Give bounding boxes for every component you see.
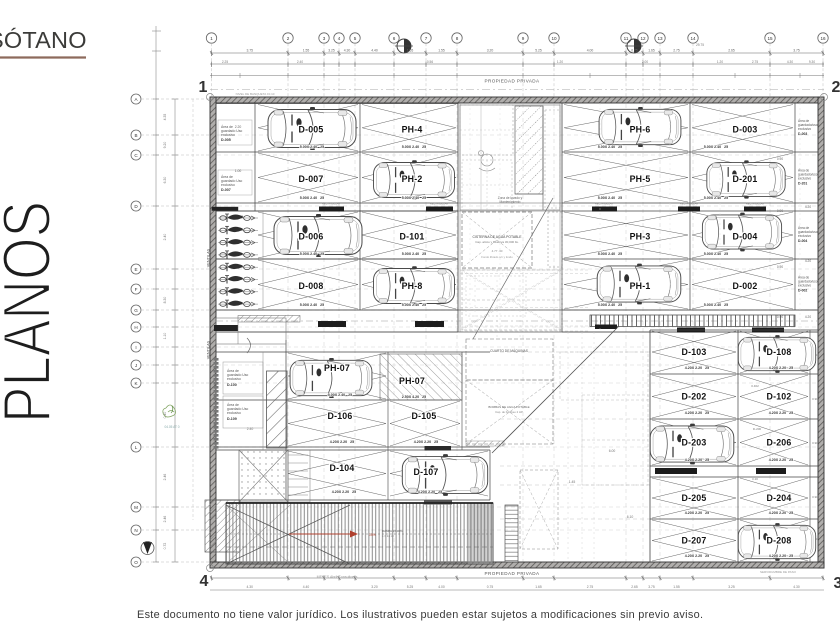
svg-text:0.90: 0.90 bbox=[812, 495, 818, 499]
svg-text:D-004: D-004 bbox=[733, 232, 758, 242]
svg-text:E: E bbox=[134, 267, 137, 272]
svg-text:D-207: D-207 bbox=[682, 536, 707, 546]
svg-text:1: 1 bbox=[210, 36, 213, 41]
svg-text:3.20: 3.20 bbox=[371, 585, 378, 589]
svg-text:4.20X 2.20 25: 4.20X 2.20 25 bbox=[685, 458, 709, 462]
svg-text:5.00X 2.40 25: 5.00X 2.40 25 bbox=[300, 303, 324, 307]
svg-text:1.55: 1.55 bbox=[407, 49, 414, 53]
svg-text:exclusivo: exclusivo bbox=[227, 377, 241, 381]
svg-text:5.00X 2.40 25: 5.00X 2.40 25 bbox=[402, 145, 426, 149]
svg-text:L: L bbox=[135, 445, 138, 450]
svg-text:H: H bbox=[134, 325, 137, 330]
svg-text:exclusivo: exclusivo bbox=[221, 183, 235, 187]
svg-text:8.30: 8.30 bbox=[163, 297, 167, 304]
svg-text:SÓTANO: SÓTANO bbox=[0, 27, 87, 53]
svg-text:2.65: 2.65 bbox=[631, 585, 638, 589]
svg-text:0.56: 0.56 bbox=[427, 60, 433, 64]
svg-text:D-007: D-007 bbox=[221, 188, 231, 192]
svg-text:4.20X 2.20 25: 4.20X 2.20 25 bbox=[330, 440, 354, 444]
svg-text:D-008: D-008 bbox=[299, 281, 324, 291]
svg-text:O: O bbox=[134, 560, 138, 565]
svg-text:PROPIEDAD PRIVADA: PROPIEDAD PRIVADA bbox=[485, 79, 540, 84]
svg-text:11: 11 bbox=[624, 36, 629, 41]
svg-text:1.20: 1.20 bbox=[717, 60, 723, 64]
svg-text:5.00X 2.40 25: 5.00X 2.40 25 bbox=[598, 196, 622, 200]
svg-text:1.55: 1.55 bbox=[438, 49, 445, 53]
svg-text:8: 8 bbox=[456, 36, 459, 41]
svg-text:3.75: 3.75 bbox=[246, 49, 253, 53]
svg-text:PH-4: PH-4 bbox=[402, 124, 423, 134]
svg-text:D-204: D-204 bbox=[767, 493, 792, 503]
svg-text:2.75: 2.75 bbox=[587, 585, 594, 589]
svg-text:B: B bbox=[134, 133, 137, 138]
svg-text:D-002: D-002 bbox=[733, 281, 758, 291]
svg-text:4.20X 2.20 25: 4.20X 2.20 25 bbox=[332, 490, 356, 494]
svg-text:J: J bbox=[135, 363, 137, 368]
svg-text:4.20X 2.20 25: 4.20X 2.20 25 bbox=[418, 490, 442, 494]
svg-text:1.65: 1.65 bbox=[648, 49, 655, 53]
svg-text:D-201: D-201 bbox=[798, 182, 807, 186]
svg-text:2.00: 2.00 bbox=[642, 60, 648, 64]
svg-text:2.75: 2.75 bbox=[673, 49, 680, 53]
svg-text:5.00X 2.40 25: 5.00X 2.40 25 bbox=[402, 252, 426, 256]
svg-text:4.20X 2.20 25: 4.20X 2.20 25 bbox=[769, 366, 793, 370]
svg-text:4.20X 2.20 25: 4.20X 2.20 25 bbox=[685, 411, 709, 415]
svg-text:3.25: 3.25 bbox=[328, 49, 335, 53]
svg-text:4.20X 2.20 25: 4.20X 2.20 25 bbox=[414, 440, 438, 444]
svg-text:4.30: 4.30 bbox=[344, 49, 351, 53]
svg-text:RECTANGULAR: RECTANGULAR bbox=[430, 203, 448, 206]
svg-text:5.00X 2.40 25: 5.00X 2.40 25 bbox=[598, 145, 622, 149]
svg-text:2.25: 2.25 bbox=[222, 60, 228, 64]
svg-text:PH-6: PH-6 bbox=[630, 124, 651, 134]
svg-text:5.00X 2.40 25: 5.00X 2.40 25 bbox=[704, 145, 728, 149]
svg-text:2.75: 2.75 bbox=[752, 60, 758, 64]
svg-text:PH-3: PH-3 bbox=[630, 232, 651, 242]
svg-text:12: 12 bbox=[640, 36, 646, 41]
svg-text:D-109: D-109 bbox=[227, 417, 237, 421]
svg-text:1.45: 1.45 bbox=[569, 480, 576, 484]
svg-text:D-201: D-201 bbox=[733, 174, 758, 184]
svg-text:MESES Abril Consultores: MESES Abril Consultores bbox=[317, 575, 358, 579]
svg-text:0.75: 0.75 bbox=[487, 585, 494, 589]
svg-text:2.46: 2.46 bbox=[163, 474, 167, 481]
svg-text:2.20: 2.20 bbox=[235, 125, 242, 129]
svg-text:10: 10 bbox=[551, 36, 557, 41]
svg-text:4.40: 4.40 bbox=[303, 585, 310, 589]
svg-text:9.20: 9.20 bbox=[163, 142, 167, 149]
svg-text:D-103: D-103 bbox=[682, 347, 707, 357]
svg-text:6.00: 6.00 bbox=[609, 449, 616, 453]
svg-text:RECTANGULAR: RECTANGULAR bbox=[322, 203, 340, 206]
svg-text:CISTERNA DE AGUA POTABLE: CISTERNA DE AGUA POTABLE bbox=[472, 235, 522, 239]
svg-text:D-002: D-002 bbox=[798, 289, 807, 293]
svg-text:PH-2: PH-2 bbox=[402, 174, 423, 184]
svg-text:5.25: 5.25 bbox=[535, 49, 542, 53]
svg-text:G: G bbox=[134, 308, 138, 313]
svg-text:exclusivo: exclusivo bbox=[227, 411, 241, 415]
svg-text:2.40: 2.40 bbox=[297, 60, 303, 64]
svg-text:s = 14 ml: s = 14 ml bbox=[382, 534, 394, 538]
svg-text:0.90: 0.90 bbox=[777, 157, 783, 161]
svg-text:F: F bbox=[135, 287, 138, 292]
svg-text:D-208: D-208 bbox=[767, 536, 792, 546]
svg-text:7: 7 bbox=[425, 36, 428, 41]
svg-text:4.30: 4.30 bbox=[793, 585, 800, 589]
svg-text:2.65: 2.65 bbox=[728, 49, 735, 53]
svg-text:1.10: 1.10 bbox=[163, 333, 167, 340]
svg-text:Este documento no tiene valor: Este documento no tiene valor jurídico. … bbox=[137, 609, 703, 621]
svg-text:0.90: 0.90 bbox=[777, 209, 783, 213]
svg-text:D-203: D-203 bbox=[682, 438, 707, 448]
svg-text:4.30: 4.30 bbox=[787, 60, 793, 64]
svg-text:PH-8: PH-8 bbox=[402, 281, 423, 291]
svg-text:1.20: 1.20 bbox=[557, 60, 563, 64]
svg-text:1.55: 1.55 bbox=[303, 49, 310, 53]
svg-text:15: 15 bbox=[767, 36, 773, 41]
svg-text:5.00X 2.40 25: 5.00X 2.40 25 bbox=[704, 303, 728, 307]
svg-text:I: I bbox=[135, 345, 136, 350]
svg-text:PROPIEDAD PRIVADA: PROPIEDAD PRIVADA bbox=[485, 571, 540, 576]
svg-text:29.75: 29.75 bbox=[696, 43, 704, 47]
svg-text:SERVIDUMBRE DE PASO: SERVIDUMBRE DE PASO bbox=[760, 570, 797, 574]
svg-text:9: 9 bbox=[522, 36, 525, 41]
svg-text:4.20: 4.20 bbox=[805, 259, 811, 263]
svg-text:4.30: 4.30 bbox=[247, 585, 254, 589]
svg-text:PH-1: PH-1 bbox=[630, 281, 651, 291]
svg-text:5.00X 2.40 25: 5.00X 2.40 25 bbox=[402, 196, 426, 200]
svg-text:6.30: 6.30 bbox=[163, 177, 167, 184]
svg-text:4.20X 2.20 25: 4.20X 2.20 25 bbox=[685, 511, 709, 515]
svg-text:4.77 .30: 4.77 .30 bbox=[492, 249, 503, 253]
svg-text:CUARTO DE MÁQUINAS: CUARTO DE MÁQUINAS bbox=[490, 349, 529, 353]
svg-text:D-102: D-102 bbox=[767, 392, 792, 402]
svg-text:0.90: 0.90 bbox=[812, 441, 818, 445]
svg-text:D-105: D-105 bbox=[412, 411, 437, 421]
svg-text:D-108: D-108 bbox=[767, 347, 792, 357]
svg-text:5.00X 2.40 25: 5.00X 2.40 25 bbox=[704, 196, 728, 200]
svg-text:PH-07: PH-07 bbox=[324, 363, 350, 373]
svg-text:4.20X 2.20 25: 4.20X 2.20 25 bbox=[685, 366, 709, 370]
svg-text:4.20X 2.20 25: 4.20X 2.20 25 bbox=[685, 554, 709, 558]
svg-text:D-206: D-206 bbox=[753, 427, 762, 431]
svg-text:RAMPA 15.00%: RAMPA 15.00% bbox=[382, 529, 403, 533]
svg-text:3.75: 3.75 bbox=[648, 585, 655, 589]
svg-text:PH-07: PH-07 bbox=[399, 376, 425, 386]
svg-text:5.00X 2.40 25: 5.00X 2.40 25 bbox=[598, 303, 622, 307]
svg-text:5.00X 2.40 25: 5.00X 2.40 25 bbox=[598, 252, 622, 256]
svg-text:0.90: 0.90 bbox=[812, 397, 818, 401]
svg-text:9.30: 9.30 bbox=[809, 60, 815, 64]
svg-text:0.20: 0.20 bbox=[752, 477, 758, 481]
svg-text:5.00X 2.40 25: 5.00X 2.40 25 bbox=[402, 303, 426, 307]
svg-text:D-100: D-100 bbox=[227, 383, 237, 387]
svg-text:Cap. almto y Reserva 30,000 l: Cap. almto y Reserva 30,000 lts. bbox=[475, 240, 519, 244]
svg-text:5.25: 5.25 bbox=[407, 585, 414, 589]
svg-text:D-104: D-104 bbox=[330, 463, 355, 473]
svg-text:4.20X 2.20 25: 4.20X 2.20 25 bbox=[769, 411, 793, 415]
svg-text:N: N bbox=[134, 528, 137, 533]
svg-text:BOMBAS DE AGUA POTABLE: BOMBAS DE AGUA POTABLE bbox=[488, 405, 529, 409]
svg-text:1.65: 1.65 bbox=[535, 585, 542, 589]
svg-text:VENTILAS: VENTILAS bbox=[207, 248, 211, 267]
svg-text:16: 16 bbox=[820, 36, 826, 41]
svg-text:1.55: 1.55 bbox=[673, 585, 680, 589]
svg-text:4.35: 4.35 bbox=[163, 114, 167, 121]
svg-text:4.20: 4.20 bbox=[805, 315, 811, 319]
svg-text:D-003: D-003 bbox=[733, 124, 758, 134]
svg-text:4: 4 bbox=[200, 573, 209, 590]
svg-text:4.00: 4.00 bbox=[438, 585, 445, 589]
svg-text:D-205: D-205 bbox=[682, 493, 707, 503]
svg-text:D-004: D-004 bbox=[798, 239, 807, 243]
svg-text:D-005: D-005 bbox=[299, 124, 324, 134]
svg-text:2.40: 2.40 bbox=[163, 234, 167, 241]
svg-text:PH-5: PH-5 bbox=[630, 174, 651, 184]
svg-text:RECTANGULAR: RECTANGULAR bbox=[680, 203, 698, 206]
svg-text:D-106: D-106 bbox=[328, 411, 353, 421]
svg-text:D-003: D-003 bbox=[798, 132, 807, 136]
svg-text:D-006: D-006 bbox=[299, 232, 324, 242]
svg-text:PLANOS: PLANOS bbox=[0, 201, 65, 423]
svg-text:0.72: 0.72 bbox=[163, 543, 167, 550]
svg-text:5: 5 bbox=[354, 36, 357, 41]
svg-text:2.46: 2.46 bbox=[163, 516, 167, 523]
svg-text:D-005: D-005 bbox=[221, 138, 231, 142]
svg-text:5.00X 2.40 25: 5.00X 2.40 25 bbox=[300, 252, 324, 256]
svg-text:D-107: D-107 bbox=[414, 467, 439, 477]
svg-text:4.20X 2.20 25: 4.20X 2.20 25 bbox=[769, 458, 793, 462]
svg-text:D-007: D-007 bbox=[299, 174, 324, 184]
svg-text:4.20: 4.20 bbox=[805, 205, 811, 209]
svg-text:4.20X 2.20 25: 4.20X 2.20 25 bbox=[769, 511, 793, 515]
svg-text:2: 2 bbox=[832, 79, 840, 96]
svg-text:RECTANGULAR: RECTANGULAR bbox=[595, 203, 613, 206]
svg-text:3: 3 bbox=[323, 36, 326, 41]
svg-text:5.00X 2.40 25: 5.00X 2.40 25 bbox=[300, 145, 324, 149]
svg-text:M: M bbox=[134, 505, 138, 510]
svg-text:RECTANGULAR: RECTANGULAR bbox=[746, 203, 764, 206]
svg-text:3: 3 bbox=[834, 575, 840, 592]
svg-text:4.00: 4.00 bbox=[587, 49, 594, 53]
svg-text:1: 1 bbox=[199, 79, 208, 96]
svg-text:5.00X 2.40 25: 5.00X 2.40 25 bbox=[704, 252, 728, 256]
svg-text:NIVEL DE BANQUETA ±0.10: NIVEL DE BANQUETA ±0.10 bbox=[236, 92, 275, 96]
svg-text:4.40: 4.40 bbox=[371, 49, 378, 53]
svg-text:Cap. de bombeo 2 HP: Cap. de bombeo 2 HP bbox=[495, 410, 523, 414]
svg-text:3.25: 3.25 bbox=[728, 585, 735, 589]
svg-text:5.00X 2.40 25: 5.00X 2.40 25 bbox=[328, 393, 352, 397]
svg-text:14: 14 bbox=[690, 36, 696, 41]
svg-text:exclusivo: exclusivo bbox=[221, 133, 235, 137]
svg-text:4: 4 bbox=[338, 36, 341, 41]
svg-text:0.90: 0.90 bbox=[777, 265, 783, 269]
svg-text:2.40: 2.40 bbox=[247, 427, 254, 431]
svg-text:3.75: 3.75 bbox=[793, 49, 800, 53]
svg-text:6.10: 6.10 bbox=[627, 515, 634, 519]
svg-text:4.20X 2.20 25: 4.20X 2.20 25 bbox=[769, 554, 793, 558]
svg-text:Mantenimiento: Mantenimiento bbox=[500, 200, 521, 204]
svg-text:6: 6 bbox=[393, 36, 396, 41]
svg-text:2: 2 bbox=[287, 36, 290, 41]
svg-text:3.20: 3.20 bbox=[487, 49, 494, 53]
svg-text:2.50X 4.20 25: 2.50X 4.20 25 bbox=[402, 395, 426, 399]
svg-text:0.462: 0.462 bbox=[751, 384, 759, 388]
svg-text:5.00X 2.40 25: 5.00X 2.40 25 bbox=[300, 196, 324, 200]
svg-text:Fondo librado s/n y fondo: Fondo librado s/n y fondo bbox=[481, 255, 513, 259]
svg-text:15%: 15% bbox=[369, 533, 376, 537]
svg-text:13: 13 bbox=[657, 36, 663, 41]
svg-text:D-101: D-101 bbox=[400, 232, 425, 242]
svg-text:04.05 AT 0: 04.05 AT 0 bbox=[164, 425, 179, 429]
svg-text:0.75: 0.75 bbox=[631, 49, 638, 53]
svg-text:1.00: 1.00 bbox=[235, 169, 242, 173]
svg-text:VENTILAS: VENTILAS bbox=[207, 340, 211, 359]
svg-text:D-206: D-206 bbox=[767, 438, 792, 448]
svg-text:D-202: D-202 bbox=[682, 392, 707, 402]
